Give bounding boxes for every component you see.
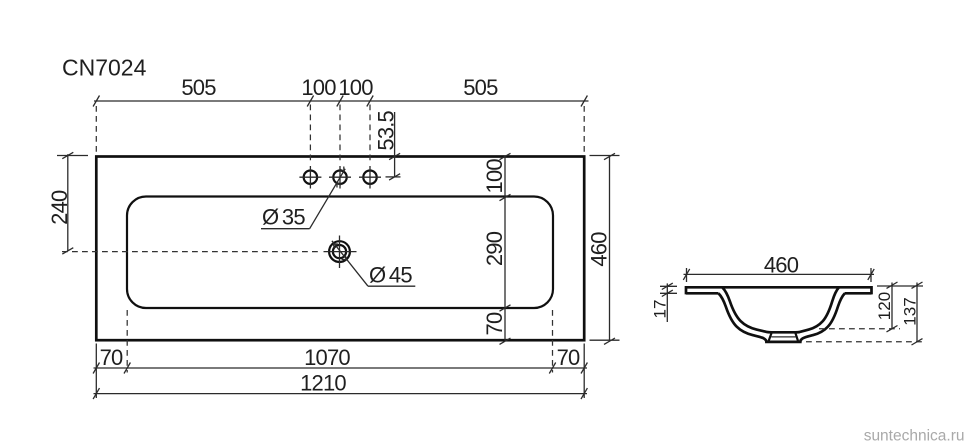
extension line hole1 (dashed)	[309, 105, 311, 164]
extension line left top (dashed)	[95, 106, 97, 152]
section dimension 137	[901, 282, 923, 345]
section dimension 17	[651, 283, 678, 322]
svg-text:460: 460	[764, 253, 799, 278]
faucet hole 2	[329, 166, 351, 189]
bottom dimension line 1210	[93, 371, 587, 400]
svg-text:120: 120	[875, 292, 894, 320]
svg-text:240: 240	[47, 190, 72, 225]
svg-text:70: 70	[557, 345, 580, 370]
svg-text:Ø 35: Ø 35	[262, 205, 305, 230]
svg-text:1070: 1070	[304, 345, 350, 370]
section dimension 120	[875, 282, 898, 332]
dimension 100/290/70 (inner right vertical)	[482, 153, 511, 344]
extension line basin-left bottom (dashed)	[126, 310, 128, 373]
extension line basin-right bottom (dashed)	[552, 310, 554, 373]
top dimension line 505/100/100/505	[93, 75, 588, 107]
faucet hole 3	[359, 166, 381, 189]
section view: bowl inner wall	[723, 288, 839, 333]
section dashed line at 120 depth	[819, 328, 900, 330]
svg-text:100: 100	[482, 159, 507, 194]
svg-text:Ø 45: Ø 45	[369, 263, 412, 288]
svg-text:505: 505	[463, 75, 498, 100]
drain hole	[324, 236, 357, 269]
svg-text:100: 100	[301, 75, 336, 100]
svg-text:290: 290	[482, 231, 507, 266]
svg-text:70: 70	[100, 345, 123, 370]
svg-text:suntechnica.ru: suntechnica.ru	[864, 428, 965, 445]
dimension 240 (left vertical)	[47, 152, 88, 254]
dimension 460 (outer right vertical)	[587, 153, 620, 344]
extension line hole2 (dashed)	[339, 105, 341, 164]
section dashed line at 137 depth	[806, 341, 925, 343]
svg-text:CN7024: CN7024	[62, 55, 147, 81]
centerline through drain (dashed)	[62, 251, 322, 253]
label D45 with leader	[332, 241, 415, 288]
svg-text:460: 460	[587, 232, 612, 267]
label D35 with leader	[261, 167, 345, 230]
dimension 53.5 (vertical, small)	[373, 110, 400, 180]
section view: drain recess lines	[768, 332, 798, 342]
bottom dimension line 70/1070/70	[93, 345, 587, 374]
svg-text:53.5: 53.5	[373, 110, 398, 150]
extension line plate-left bottom	[95, 344, 97, 399]
basin rounded rectangle (plan view)	[127, 197, 553, 309]
svg-text:505: 505	[181, 75, 216, 100]
watermark suntechnica.ru	[864, 428, 965, 445]
section view: rim profile	[686, 286, 872, 294]
svg-text:100: 100	[338, 75, 373, 100]
svg-text:17: 17	[651, 300, 670, 319]
svg-text:137: 137	[901, 297, 920, 325]
section dimension 460	[683, 253, 874, 283]
section top extension line for 120/137	[877, 285, 923, 287]
extension line right top (dashed)	[583, 106, 585, 152]
extension line plate-right bottom	[583, 344, 585, 399]
svg-text:1210: 1210	[300, 371, 346, 396]
section view: bowl outer wall	[719, 293, 845, 342]
plate outline (plan view)	[96, 157, 584, 341]
faucet hole 1	[299, 166, 321, 189]
extension line hole3 (dashed)	[369, 105, 371, 164]
svg-text:70: 70	[482, 312, 507, 335]
title CN7024	[62, 55, 147, 81]
